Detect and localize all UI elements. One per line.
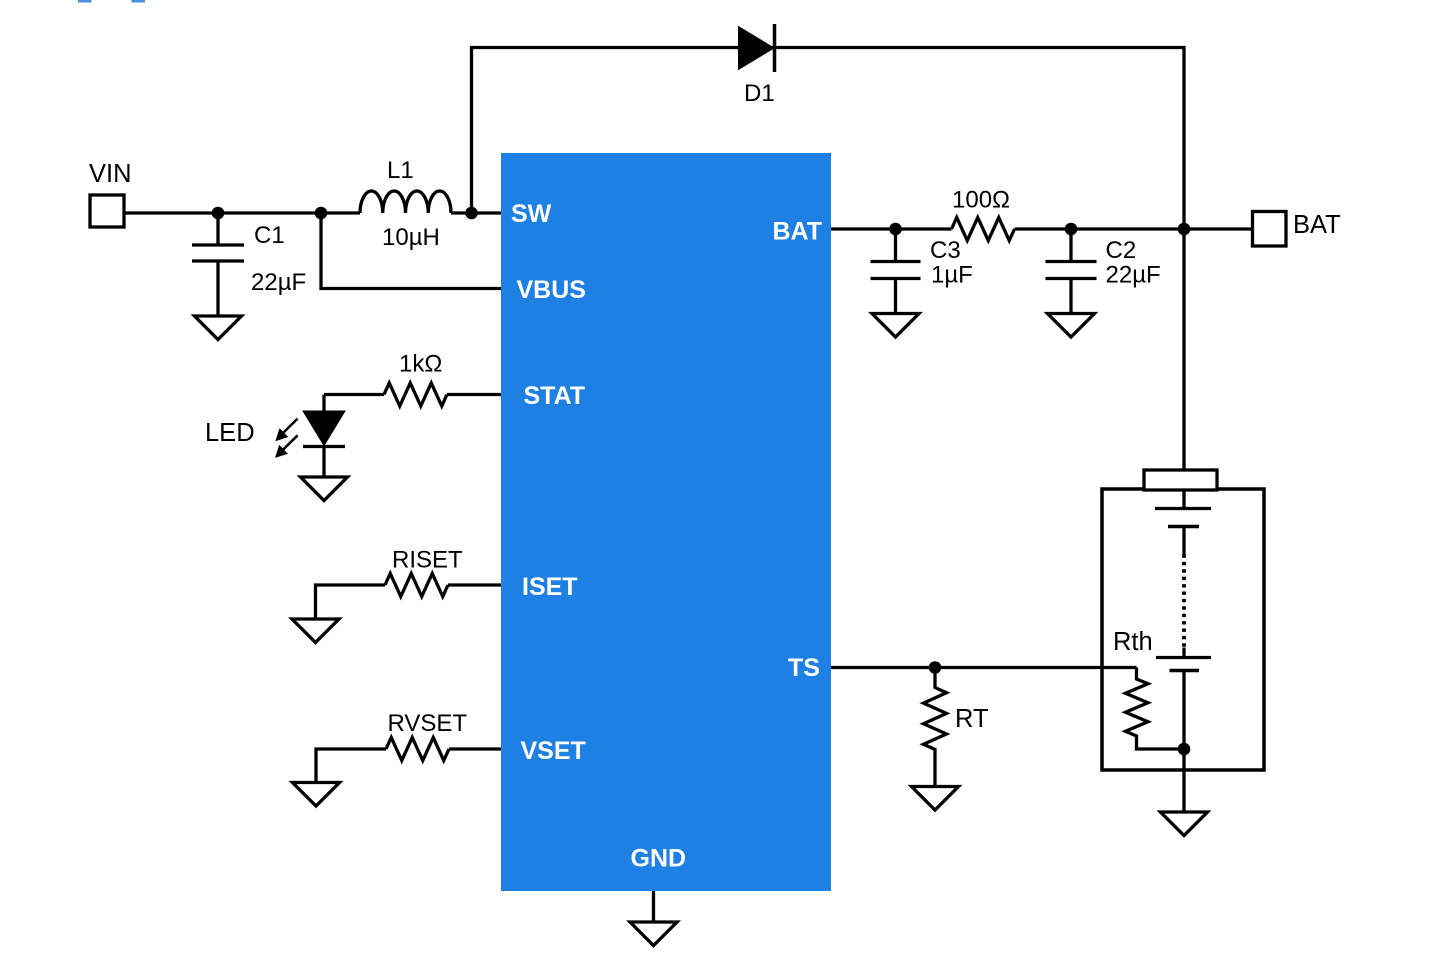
svg-text:D1: D1 — [744, 80, 775, 107]
ground RT — [912, 787, 959, 811]
battery cell 2 long plate — [1156, 656, 1211, 659]
wire BAT right — [1015, 227, 1253, 230]
battery cell 1 long plate — [1155, 507, 1211, 510]
wire STAT left — [324, 393, 384, 396]
wire C1 top lead — [216, 213, 219, 245]
svg-text:ISET: ISET — [522, 573, 578, 601]
node VIN terminal — [90, 195, 124, 227]
browser UI fragment left — [78, 0, 92, 3]
wire ISET left — [316, 585, 386, 619]
ground C1 — [195, 316, 242, 340]
svg-text:100Ω: 100Ω — [952, 187, 1010, 214]
wire STAT right — [447, 393, 501, 396]
ground GND pin — [630, 922, 677, 946]
node junction BAT rail — [1178, 223, 1191, 236]
wire TS — [831, 666, 1137, 669]
node junction C3 — [889, 223, 902, 236]
wire C2 bottom lead — [1069, 279, 1072, 314]
resistor 100 Ohm — [952, 218, 1015, 241]
svg-text:VSET: VSET — [521, 737, 586, 765]
node BAT terminal — [1253, 212, 1287, 247]
wire ISET right — [448, 583, 501, 586]
wire VSET right — [449, 747, 501, 750]
wire C2 top lead — [1069, 229, 1072, 262]
diode D1 anode triangle — [739, 28, 773, 69]
ground C2 — [1048, 314, 1095, 338]
svg-text:STAT: STAT — [524, 382, 586, 410]
wire battery cell 1 stem — [1182, 527, 1185, 555]
node junction C2 — [1065, 223, 1078, 236]
svg-text:1µF: 1µF — [931, 262, 973, 289]
IC U1 body — [501, 153, 831, 891]
LED triangle — [303, 411, 345, 446]
wire battery dotted — [1182, 555, 1186, 648]
ground ISET — [292, 619, 339, 643]
wire battery mid — [1182, 648, 1185, 658]
wire C3 bottom lead — [894, 279, 897, 314]
thermistor Rth — [1126, 668, 1185, 750]
wire LED anode lead — [322, 395, 325, 412]
wire L1 to SW pin — [451, 211, 501, 214]
svg-text:RVSET: RVSET — [388, 710, 468, 737]
wire VIN to L1 — [124, 211, 360, 214]
battery pack box — [1102, 489, 1264, 770]
svg-text:RT: RT — [955, 705, 989, 733]
svg-text:C1: C1 — [254, 222, 285, 249]
capacitor C2 — [1046, 262, 1097, 279]
node junction RT — [929, 661, 942, 674]
LED arrow 2 — [282, 435, 298, 450]
svg-text:22µF: 22µF — [1106, 262, 1161, 289]
ground LED — [301, 477, 348, 501]
svg-text:SW: SW — [511, 200, 552, 228]
LED cathode bar — [303, 445, 345, 448]
battery top tab — [1144, 470, 1217, 490]
node junction VBUS tap — [315, 207, 328, 220]
ground VSET — [293, 783, 340, 807]
svg-text:BAT: BAT — [773, 218, 823, 246]
svg-text:22µF: 22µF — [251, 269, 306, 296]
wire VSET left — [316, 749, 386, 783]
battery cell 1 short plate — [1168, 525, 1199, 529]
browser UI fragment right — [132, 0, 146, 3]
LED arrow 1 — [282, 419, 298, 434]
node junction SW — [465, 207, 478, 220]
capacitor C3 — [871, 262, 921, 279]
wire battery bottom stem — [1182, 671, 1185, 812]
wire VBUS — [321, 213, 501, 289]
resistor RT — [924, 668, 947, 787]
battery cell 2 short plate — [1170, 669, 1200, 673]
svg-text:VIN: VIN — [89, 160, 132, 188]
resistor 1k STAT — [384, 383, 447, 406]
node junction C1 — [212, 207, 225, 220]
svg-text:1kΩ: 1kΩ — [399, 351, 442, 378]
svg-text:GND: GND — [631, 845, 687, 873]
resistor RISET — [385, 574, 448, 597]
ground C3 — [872, 314, 919, 338]
wire C3 top lead — [894, 229, 897, 262]
svg-text:C2: C2 — [1106, 237, 1137, 264]
resistor RVSET — [386, 738, 449, 761]
wire GND pin — [652, 891, 655, 922]
svg-text:RISET: RISET — [392, 547, 463, 574]
svg-text:L1: L1 — [387, 157, 414, 184]
svg-text:10µH: 10µH — [382, 224, 440, 251]
capacitor C1 — [192, 245, 244, 261]
wire battery internal top — [1182, 490, 1185, 509]
svg-text:TS: TS — [788, 654, 820, 682]
svg-text:VBUS: VBUS — [517, 276, 586, 304]
wire LED cathode lead — [322, 447, 325, 477]
diode D1 cathode bar — [773, 24, 777, 72]
ground battery — [1161, 812, 1208, 836]
svg-text:Rth: Rth — [1113, 628, 1153, 656]
svg-text:BAT: BAT — [1293, 211, 1341, 239]
wire C1 bottom lead — [216, 261, 219, 316]
inductor L1 — [360, 191, 451, 213]
wire BAT left — [831, 227, 952, 230]
wire SW riser to top rail — [472, 48, 1185, 471]
svg-text:LED: LED — [205, 419, 255, 447]
svg-text:C3: C3 — [930, 237, 961, 264]
node junction battery bottom — [1178, 743, 1191, 756]
